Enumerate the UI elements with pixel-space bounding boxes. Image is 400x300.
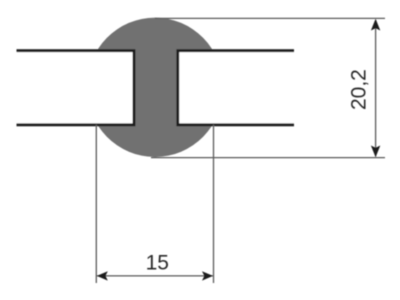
svg-text:15: 15 <box>146 251 169 274</box>
svg-text:20,2: 20,2 <box>348 69 371 110</box>
